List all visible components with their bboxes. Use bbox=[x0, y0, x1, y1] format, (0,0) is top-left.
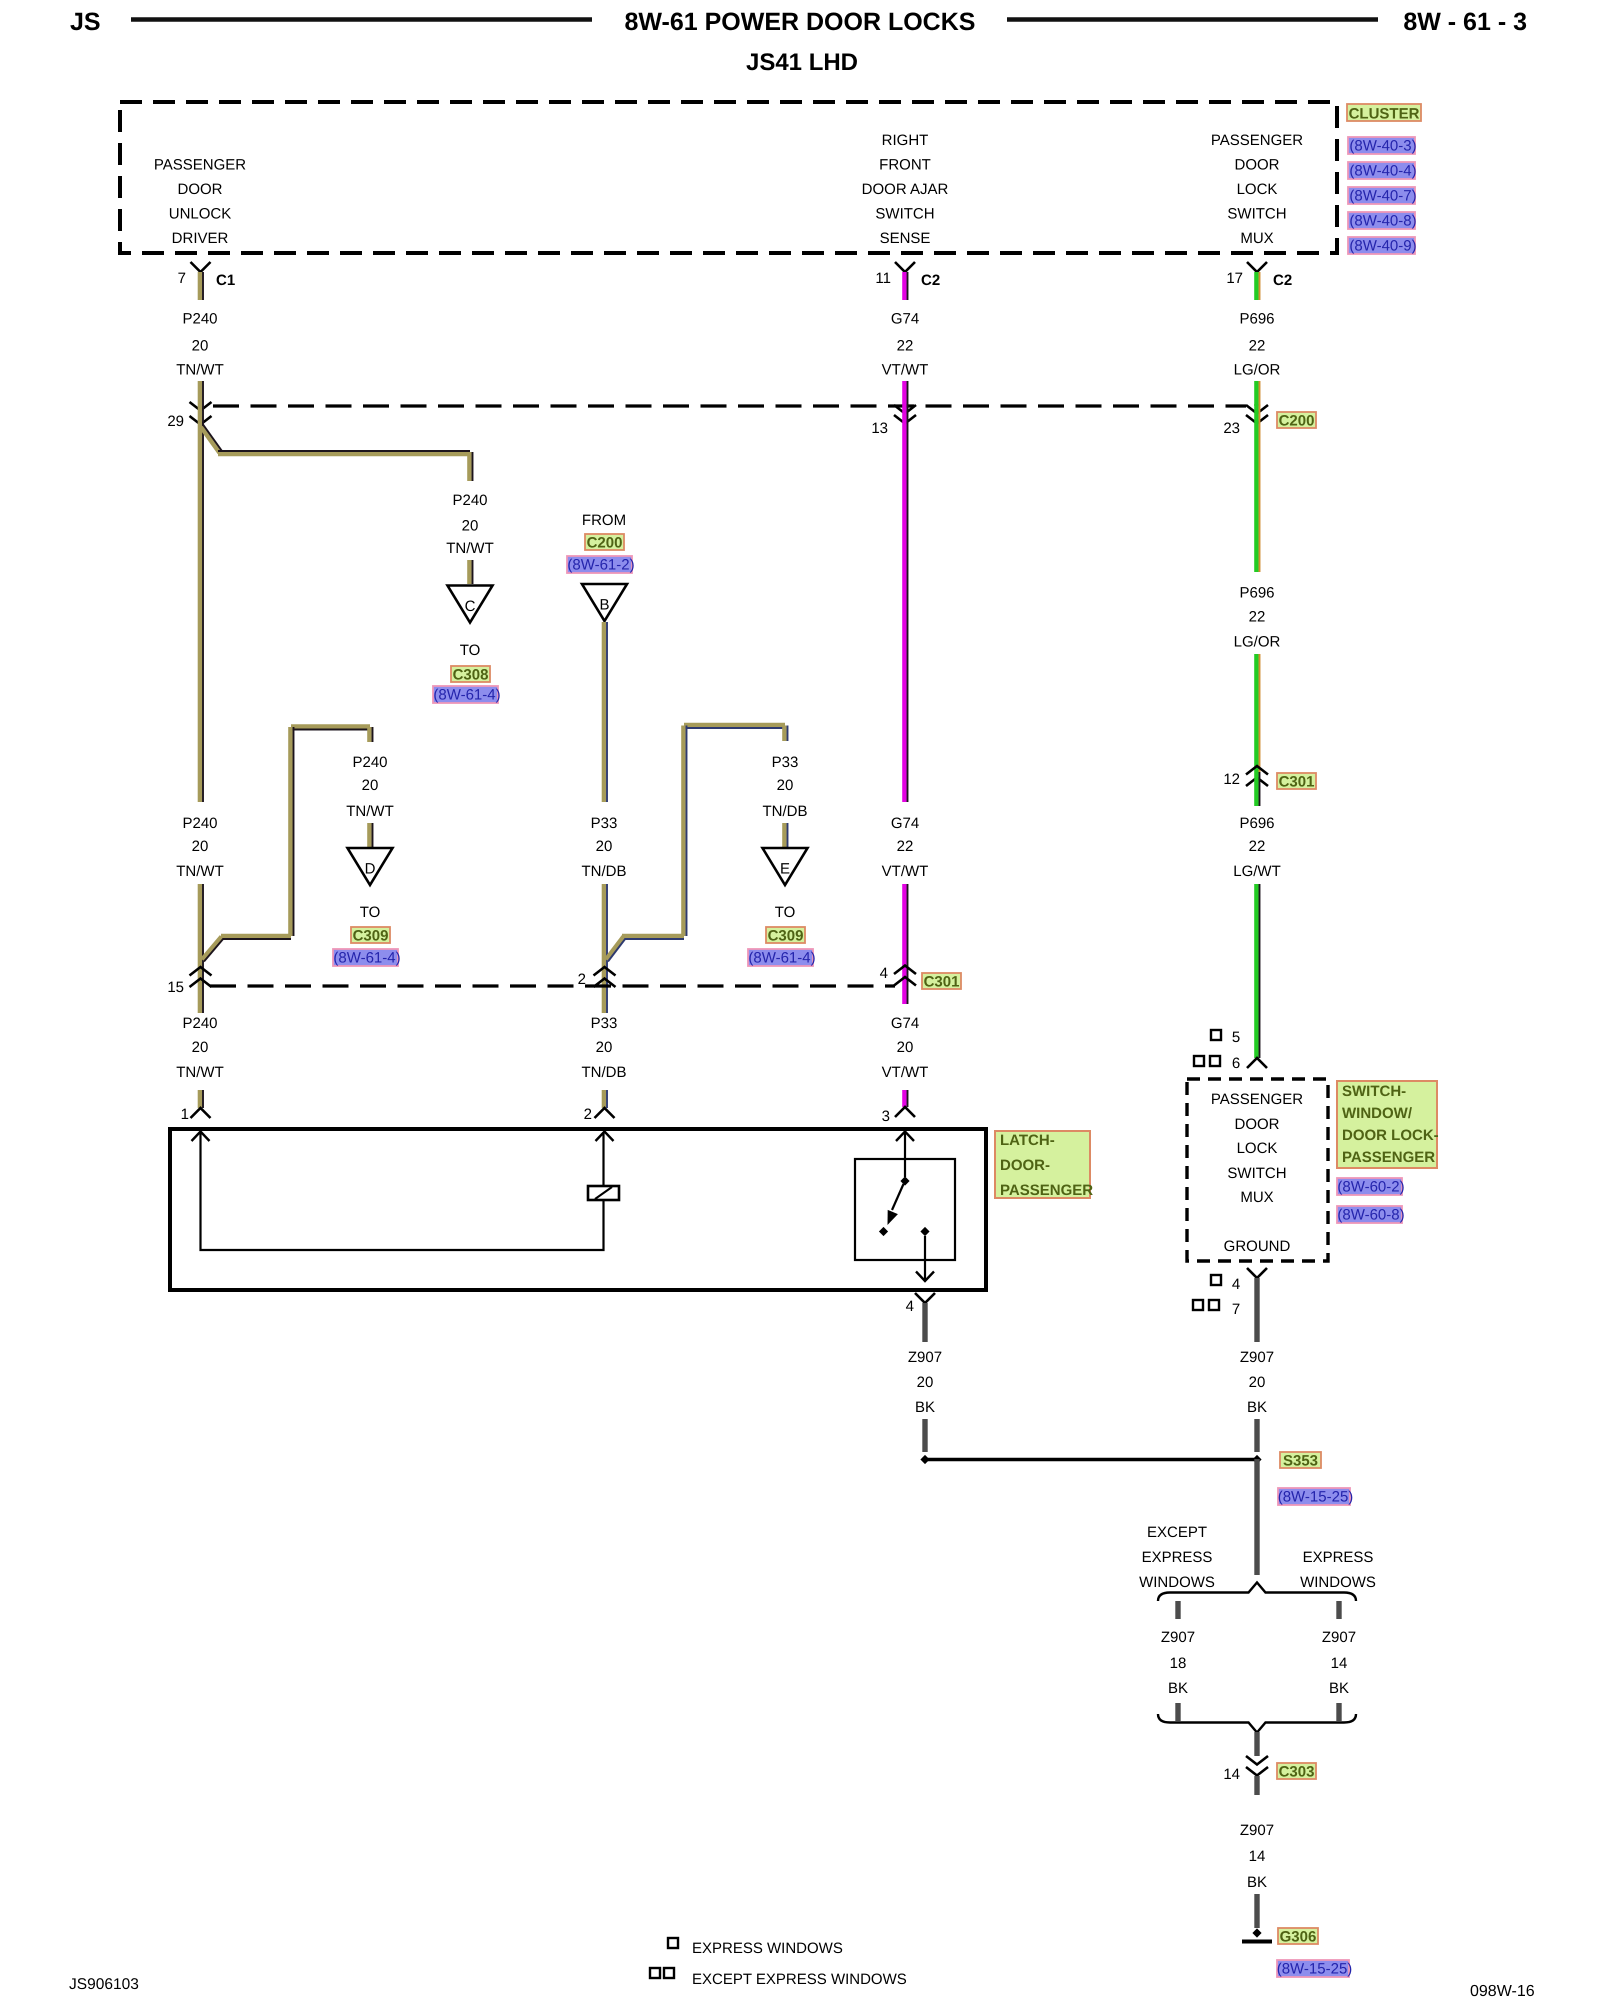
svg-text:JS906103: JS906103 bbox=[69, 1976, 139, 1993]
svg-text:JS41 LHD: JS41 LHD bbox=[746, 49, 858, 76]
wire G74 stub below C2 bbox=[904, 272, 907, 300]
svg-text:2: 2 bbox=[578, 971, 586, 988]
wire P696 below C301 bbox=[1256, 772, 1259, 806]
svg-text:14: 14 bbox=[1331, 1655, 1348, 1672]
wire P33 branch horizontal top bbox=[684, 725, 785, 728]
off-page connector triangle B bbox=[582, 584, 627, 621]
svg-text:JS: JS bbox=[70, 8, 101, 36]
wire label P33 20 TN/DB (bottom) bbox=[582, 1015, 627, 1081]
cluster pin function PASSENGER DOOR UNLOCK DRIVER bbox=[154, 157, 246, 248]
svg-text:BK: BK bbox=[1168, 1680, 1188, 1697]
svg-text:SWITCH-: SWITCH- bbox=[1342, 1083, 1406, 1100]
wire P696 to switch bbox=[1256, 884, 1259, 1058]
svg-text:(8W-61-4): (8W-61-4) bbox=[333, 950, 400, 967]
svg-text:17: 17 bbox=[1226, 270, 1243, 287]
wire P33 stub above triangle E bbox=[784, 823, 787, 847]
svg-text:(8W-40-4): (8W-40-4) bbox=[1349, 163, 1416, 180]
svg-text:G306: G306 bbox=[1280, 1929, 1317, 1946]
text TO (C309 left) bbox=[360, 904, 381, 921]
svg-text:TO: TO bbox=[460, 642, 481, 659]
svg-text:B: B bbox=[599, 597, 609, 614]
wire P33 branch horizontal bottom bbox=[622, 936, 684, 939]
label C301 (pin 12) bbox=[1277, 773, 1316, 791]
connector C1 pin 7 fork bbox=[178, 262, 211, 287]
svg-text:20: 20 bbox=[897, 1039, 914, 1056]
svg-text:P240: P240 bbox=[182, 815, 217, 832]
svg-text:CLUSTER: CLUSTER bbox=[1349, 106, 1420, 123]
latch pin 4 fork bbox=[906, 1293, 935, 1315]
latch pin 1 fork bbox=[181, 1106, 211, 1123]
svg-text:PASSENGER: PASSENGER bbox=[1211, 1091, 1303, 1108]
svg-text:S353: S353 bbox=[1283, 1453, 1318, 1470]
wire label P240 20 TN/WT (mid) bbox=[176, 815, 223, 880]
svg-text:FROM: FROM bbox=[582, 512, 626, 529]
module SWITCH-WINDOW/DOOR LOCK-PASSENGER box bbox=[1187, 1079, 1328, 1261]
svg-text:DOOR: DOOR bbox=[178, 181, 223, 198]
text TO (C308) bbox=[460, 642, 481, 659]
svg-text:5: 5 bbox=[1232, 1029, 1240, 1046]
wire P240 branch corner down bbox=[469, 452, 472, 481]
wire P240 main vertical bbox=[200, 406, 203, 802]
svg-text:EXCEPT: EXCEPT bbox=[1147, 1524, 1207, 1541]
svg-text:22: 22 bbox=[897, 838, 914, 855]
svg-text:DRIVER: DRIVER bbox=[172, 230, 229, 247]
svg-text:DOOR-: DOOR- bbox=[1000, 1157, 1050, 1174]
svg-text:LOCK: LOCK bbox=[1237, 1140, 1278, 1157]
wire label P240 20 TN/WT (branch to C308) bbox=[446, 492, 493, 557]
latch pin 3 fork bbox=[882, 1107, 915, 1125]
svg-text:TO: TO bbox=[360, 904, 381, 921]
reference (8W-15-25) at S353 bbox=[1278, 1488, 1354, 1506]
svg-text:C: C bbox=[465, 598, 476, 615]
label G306 bbox=[1278, 1928, 1318, 1946]
svg-text:EXPRESS: EXPRESS bbox=[1303, 1549, 1374, 1566]
label C303 bbox=[1277, 1763, 1316, 1781]
label C2 (door ajar) bbox=[921, 272, 940, 289]
wire label P696 22 LG/WT bbox=[1233, 815, 1281, 880]
svg-text:4: 4 bbox=[880, 965, 888, 982]
svg-text:(8W-40-7): (8W-40-7) bbox=[1349, 188, 1416, 205]
svg-text:LG/WT: LG/WT bbox=[1233, 863, 1281, 880]
svg-text:(8W-60-2): (8W-60-2) bbox=[1337, 1179, 1404, 1196]
svg-text:29: 29 bbox=[167, 413, 184, 430]
svg-text:20: 20 bbox=[1249, 1374, 1266, 1391]
splice S353 junction line bbox=[920, 1455, 1261, 1464]
svg-text:EXCEPT EXPRESS WINDOWS: EXCEPT EXPRESS WINDOWS bbox=[692, 1971, 907, 1988]
wire P696 mid vertical bbox=[1256, 654, 1259, 772]
svg-text:PASSENGER: PASSENGER bbox=[1211, 132, 1303, 149]
wire label G74 22 VT/WT (mid) bbox=[882, 815, 929, 880]
label C301 (pin 4) bbox=[922, 973, 961, 991]
wire P240 above C200 bbox=[200, 381, 203, 406]
svg-text:18: 18 bbox=[1170, 1655, 1187, 1672]
connector C2 pin 17 fork bbox=[1226, 262, 1267, 287]
svg-text:7: 7 bbox=[178, 270, 186, 287]
svg-text:TN/WT: TN/WT bbox=[446, 540, 493, 557]
svg-text:14: 14 bbox=[1223, 1766, 1240, 1783]
wire P33 branch vertical bbox=[683, 726, 686, 937]
svg-text:(8W-60-8): (8W-60-8) bbox=[1337, 1207, 1404, 1224]
option marker squares pin 6 bbox=[1194, 1055, 1240, 1072]
wire Z907 to ground bbox=[1254, 1894, 1259, 1928]
svg-text:GROUND: GROUND bbox=[1224, 1238, 1291, 1255]
label SWITCH-WINDOW/DOOR LOCK-PASSENGER bbox=[1337, 1081, 1439, 1168]
svg-text:C2: C2 bbox=[921, 272, 940, 289]
connector C200 pin 23 chevrons bbox=[1223, 405, 1268, 437]
svg-text:DOOR: DOOR bbox=[1235, 1116, 1280, 1133]
connector C2 pin 11 fork bbox=[875, 262, 915, 287]
wire label P696 22 LG/OR (top) bbox=[1234, 311, 1281, 379]
svg-text:C2: C2 bbox=[1273, 272, 1292, 289]
page number 8W - 61 - 3 bbox=[1403, 8, 1527, 36]
svg-text:1: 1 bbox=[181, 1106, 189, 1123]
header rule right bbox=[1007, 17, 1378, 22]
svg-text:20: 20 bbox=[192, 838, 209, 855]
latch switch wire pin3 bbox=[904, 1132, 906, 1177]
latch pin 2 fork bbox=[584, 1106, 615, 1123]
svg-text:MUX: MUX bbox=[1240, 230, 1273, 247]
svg-text:11: 11 bbox=[875, 270, 891, 287]
svg-text:VT/WT: VT/WT bbox=[882, 863, 929, 880]
switch box text bbox=[1211, 1091, 1303, 1255]
latch switch pole to pin 4 bbox=[916, 1227, 934, 1281]
svg-text:6: 6 bbox=[1232, 1055, 1240, 1072]
svg-text:13: 13 bbox=[871, 420, 888, 437]
svg-text:TN/WT: TN/WT bbox=[176, 1064, 223, 1081]
option marker square pin 4 bbox=[1211, 1275, 1240, 1293]
text TO (C309 right) bbox=[775, 904, 796, 921]
wire P33 lower vertical bbox=[604, 884, 607, 1013]
svg-text:G74: G74 bbox=[891, 815, 919, 832]
svg-text:20: 20 bbox=[192, 338, 209, 355]
connector C301 pin 2 chevrons bbox=[578, 967, 616, 988]
svg-text:SENSE: SENSE bbox=[880, 230, 931, 247]
wire Z907 left lower bbox=[922, 1419, 927, 1452]
legend squares EXCEPT EXPRESS WINDOWS bbox=[650, 1968, 907, 1988]
svg-text:LATCH-: LATCH- bbox=[1000, 1132, 1055, 1149]
connector C200 dashed line bbox=[213, 404, 1246, 407]
latch internal wire pin1-coil bbox=[201, 1132, 604, 1250]
svg-text:C301: C301 bbox=[924, 974, 960, 991]
svg-text:G74: G74 bbox=[891, 311, 919, 328]
header rule left bbox=[131, 17, 592, 22]
svg-text:15: 15 bbox=[167, 979, 184, 996]
svg-text:Z907: Z907 bbox=[1161, 1629, 1195, 1646]
svg-text:20: 20 bbox=[596, 1039, 613, 1056]
svg-text:RIGHT: RIGHT bbox=[882, 132, 929, 149]
svg-text:23: 23 bbox=[1223, 420, 1240, 437]
wire label Z907 20 BK (left) bbox=[908, 1349, 942, 1416]
latch internal arrow pin 1 bbox=[192, 1132, 210, 1142]
svg-text:P240: P240 bbox=[452, 492, 487, 509]
svg-text:Z907: Z907 bbox=[1240, 1822, 1274, 1839]
wire P240 branch diagonal bbox=[201, 425, 222, 453]
wire Z907 14 BK stub upper bbox=[1336, 1601, 1341, 1619]
svg-text:C301: C301 bbox=[1279, 774, 1315, 791]
wire label Z907 14 BK (bottom) bbox=[1240, 1822, 1274, 1891]
svg-text:TN/WT: TN/WT bbox=[346, 803, 393, 820]
reference (8W-40-4) bbox=[1348, 162, 1417, 180]
reference (8W-61-4) under C308 bbox=[433, 686, 501, 704]
svg-text:4: 4 bbox=[1232, 1276, 1240, 1293]
latch internal arrow pin 2 bbox=[596, 1132, 614, 1142]
svg-text:LG/OR: LG/OR bbox=[1234, 362, 1281, 379]
wire P240 stub above triangle D bbox=[369, 823, 372, 847]
wire Z907 below S353 bbox=[1254, 1459, 1259, 1575]
footer sheet code 098W-16 bbox=[1470, 1983, 1535, 2000]
svg-text:BK: BK bbox=[915, 1399, 935, 1416]
option marker square pin 5 bbox=[1211, 1029, 1240, 1046]
text EXCEPT EXPRESS WINDOWS bbox=[1139, 1524, 1215, 1591]
svg-text:Z907: Z907 bbox=[1322, 1629, 1356, 1646]
svg-text:20: 20 bbox=[362, 777, 379, 794]
wire P240 branch2 diagonal join bbox=[202, 937, 224, 962]
connector C301 dashed line bbox=[210, 984, 895, 987]
wire label P240 20 TN/WT (branch to C309) bbox=[346, 754, 393, 820]
svg-text:P240: P240 bbox=[182, 1015, 217, 1032]
svg-text:14: 14 bbox=[1249, 1848, 1266, 1865]
svg-text:VT/WT: VT/WT bbox=[882, 1064, 929, 1081]
label C309 (left) bbox=[351, 927, 390, 945]
text FROM bbox=[582, 512, 626, 529]
svg-text:P33: P33 bbox=[591, 815, 618, 832]
svg-text:098W-16: 098W-16 bbox=[1470, 1983, 1535, 2000]
wire G74 lower vertical bbox=[904, 884, 907, 1004]
svg-text:FRONT: FRONT bbox=[879, 157, 931, 174]
option marker squares pin 7 bbox=[1193, 1300, 1240, 1318]
legend square EXPRESS WINDOWS bbox=[668, 1938, 843, 1957]
wire label Z907 20 BK (right) bbox=[1240, 1349, 1274, 1416]
label LATCH-DOOR-PASSENGER bbox=[995, 1131, 1093, 1199]
module CLUSTER dashed box bbox=[120, 102, 1337, 253]
svg-text:EXPRESS: EXPRESS bbox=[1142, 1549, 1213, 1566]
harness merge brace bbox=[1158, 1714, 1356, 1733]
wire label P33 20 TN/DB (branch to C309) bbox=[763, 754, 808, 820]
svg-text:VT/WT: VT/WT bbox=[882, 362, 929, 379]
svg-text:20: 20 bbox=[192, 1039, 209, 1056]
wire Z907 14 BK stub lower bbox=[1336, 1703, 1341, 1721]
reference (8W-40-7) bbox=[1348, 187, 1417, 205]
wire P240 lower vertical bbox=[200, 884, 203, 1013]
svg-text:C200: C200 bbox=[587, 535, 623, 552]
svg-text:WINDOW/: WINDOW/ bbox=[1342, 1105, 1413, 1122]
page title JS bbox=[70, 8, 101, 36]
svg-text:Z907: Z907 bbox=[1240, 1349, 1274, 1366]
svg-text:BK: BK bbox=[1247, 1399, 1267, 1416]
svg-text:TO: TO bbox=[775, 904, 796, 921]
svg-text:G74: G74 bbox=[891, 1015, 919, 1032]
label S353 bbox=[1280, 1452, 1321, 1470]
svg-text:SWITCH: SWITCH bbox=[1227, 1165, 1286, 1182]
svg-text:(8W-40-8): (8W-40-8) bbox=[1349, 213, 1416, 230]
wire Z907 from latch pin 4 bbox=[922, 1303, 927, 1342]
svg-text:22: 22 bbox=[897, 338, 914, 355]
connector C303 pin 14 chevrons bbox=[1223, 1756, 1268, 1783]
text EXPRESS WINDOWS bbox=[1300, 1549, 1376, 1591]
connector C301 pin 15 chevrons bbox=[167, 967, 211, 996]
svg-text:22: 22 bbox=[1249, 838, 1266, 855]
wire Z907 right lower bbox=[1254, 1419, 1259, 1452]
footer sheet code JS906103 bbox=[69, 1976, 139, 1993]
wire P240 branch horizontal bbox=[218, 451, 470, 454]
svg-text:4: 4 bbox=[906, 1298, 914, 1315]
label C2 (lock switch) bbox=[1273, 272, 1292, 289]
wire P240 branch2 vertical bbox=[290, 727, 293, 936]
wire P240 branch2 stub down bbox=[369, 727, 372, 742]
svg-text:20: 20 bbox=[462, 518, 479, 535]
label C200 bbox=[1277, 412, 1316, 430]
wire P33 branch diagonal join bbox=[606, 937, 626, 962]
reference (8W-61-4) under C309 left bbox=[333, 949, 401, 967]
svg-text:3: 3 bbox=[882, 1108, 890, 1125]
wire Z907 below C303 bbox=[1254, 1776, 1259, 1795]
wire G74 above C200 bbox=[904, 381, 907, 406]
wire P696 above C200 bbox=[1256, 381, 1259, 406]
cluster pin function PASSENGER DOOR LOCK SWITCH MUX bbox=[1211, 132, 1303, 247]
label C200 (from) bbox=[585, 534, 624, 552]
wire label P240 20 TN/WT (bottom) bbox=[176, 1015, 223, 1081]
svg-text:P696: P696 bbox=[1239, 585, 1274, 602]
label C309 (right) bbox=[766, 927, 805, 945]
svg-text:(8W-15-25): (8W-15-25) bbox=[1278, 1489, 1354, 1506]
svg-text:E: E bbox=[780, 861, 790, 878]
svg-text:DOOR AJAR: DOOR AJAR bbox=[862, 181, 949, 198]
wire label P240 20 TN/WT (top) bbox=[176, 311, 223, 379]
wire label Z907 18 BK bbox=[1161, 1629, 1195, 1697]
svg-text:P33: P33 bbox=[591, 1015, 618, 1032]
connector C301 pin 4 chevrons bbox=[880, 965, 916, 986]
svg-text:TN/WT: TN/WT bbox=[176, 362, 223, 379]
svg-text:PASSENGER: PASSENGER bbox=[154, 157, 246, 174]
svg-text:P240: P240 bbox=[182, 311, 217, 328]
svg-text:LOCK: LOCK bbox=[1237, 181, 1278, 198]
svg-text:(8W-61-4): (8W-61-4) bbox=[748, 950, 815, 967]
wire P33 branch stub down bbox=[784, 726, 787, 742]
svg-text:MUX: MUX bbox=[1240, 1189, 1273, 1206]
latch ajar switch contact bbox=[879, 1176, 910, 1236]
wire P240 branch2 horizontal bottom bbox=[221, 936, 291, 939]
reference (8W-40-8) bbox=[1348, 212, 1417, 230]
reference (8W-40-3) bbox=[1348, 137, 1417, 155]
svg-text:22: 22 bbox=[1249, 338, 1266, 355]
wire G74 to latch pin 3 bbox=[904, 1090, 907, 1107]
svg-text:SWITCH: SWITCH bbox=[875, 206, 934, 223]
switch ground fork bbox=[1247, 1268, 1267, 1278]
svg-text:C308: C308 bbox=[453, 667, 489, 684]
label CLUSTER bbox=[1347, 104, 1421, 123]
svg-text:20: 20 bbox=[777, 777, 794, 794]
svg-text:P696: P696 bbox=[1239, 311, 1274, 328]
latch internal arrow pin 3 bbox=[896, 1132, 914, 1142]
reference (8W-40-9) bbox=[1348, 237, 1417, 255]
svg-text:BK: BK bbox=[1329, 1680, 1349, 1697]
svg-text:20: 20 bbox=[596, 838, 613, 855]
connector C200 pin 29 chevrons bbox=[167, 402, 211, 430]
latch switch inner box bbox=[855, 1159, 955, 1260]
wire P696 upper vertical bbox=[1256, 404, 1259, 572]
wire label P33 20 TN/DB (mid) bbox=[582, 815, 627, 880]
svg-text:2: 2 bbox=[584, 1106, 592, 1123]
wire P33 to latch pin 2 bbox=[604, 1090, 607, 1108]
svg-text:7: 7 bbox=[1232, 1301, 1240, 1318]
svg-text:Z907: Z907 bbox=[908, 1349, 942, 1366]
harness split brace bbox=[1158, 1583, 1356, 1602]
label C308 bbox=[451, 666, 490, 684]
subtitle JS41 LHD bbox=[746, 49, 858, 76]
svg-text:BK: BK bbox=[1247, 1874, 1267, 1891]
wire label G74 20 VT/WT (bottom) bbox=[882, 1015, 929, 1081]
ground G306 symbol bbox=[1242, 1928, 1272, 1941]
wire Z907 from switch ground bbox=[1254, 1278, 1259, 1342]
reference (8W-60-2) bbox=[1337, 1178, 1405, 1196]
reference (8W-15-25) at G306 bbox=[1277, 1960, 1353, 1978]
svg-text:20: 20 bbox=[917, 1374, 934, 1391]
wire P240 stub above triangle C bbox=[469, 560, 472, 584]
module LATCH-DOOR-PASSENGER box bbox=[170, 1129, 986, 1290]
connector C301 pin 12 chevrons bbox=[1223, 766, 1268, 788]
wire Z907 18 BK stub upper bbox=[1175, 1601, 1180, 1619]
svg-text:C200: C200 bbox=[1279, 413, 1315, 430]
svg-text:P240: P240 bbox=[352, 754, 387, 771]
svg-text:D: D bbox=[365, 861, 376, 878]
reference (8W-60-8) bbox=[1337, 1206, 1405, 1224]
svg-text:TN/WT: TN/WT bbox=[176, 863, 223, 880]
svg-text:TN/DB: TN/DB bbox=[582, 863, 627, 880]
svg-text:12: 12 bbox=[1223, 771, 1240, 788]
svg-text:PASSENGER: PASSENGER bbox=[1000, 1182, 1093, 1199]
svg-text:C309: C309 bbox=[353, 928, 389, 945]
wire Z907 above C303 bbox=[1254, 1732, 1259, 1756]
svg-text:LG/OR: LG/OR bbox=[1234, 634, 1281, 651]
connector C200 pin 13 chevrons bbox=[871, 405, 916, 437]
svg-text:8W-61 POWER DOOR LOCKS: 8W-61 POWER DOOR LOCKS bbox=[625, 8, 976, 36]
svg-text:C309: C309 bbox=[768, 928, 804, 945]
svg-text:C1: C1 bbox=[216, 272, 235, 289]
wire P240 stub below C1 bbox=[200, 272, 203, 300]
label C1 bbox=[216, 272, 235, 289]
svg-text:(8W-40-3): (8W-40-3) bbox=[1349, 138, 1416, 155]
svg-text:22: 22 bbox=[1249, 609, 1266, 626]
switch pin 5/6 fork bbox=[1247, 1058, 1267, 1068]
svg-text:UNLOCK: UNLOCK bbox=[169, 206, 232, 223]
page title 8W-61 POWER DOOR LOCKS bbox=[625, 8, 976, 36]
off-page connector triangle D bbox=[348, 848, 393, 885]
svg-text:TN/DB: TN/DB bbox=[582, 1064, 627, 1081]
wire G74 long vertical bbox=[904, 404, 907, 802]
cluster pin function RIGHT FRONT DOOR AJAR SWITCH SENSE bbox=[862, 132, 949, 247]
off-page connector triangle C bbox=[448, 586, 493, 623]
wire label Z907 14 BK bbox=[1322, 1629, 1356, 1697]
svg-text:(8W-40-9): (8W-40-9) bbox=[1349, 238, 1416, 255]
svg-text:(8W-61-2): (8W-61-2) bbox=[567, 557, 634, 574]
svg-text:P33: P33 bbox=[772, 754, 799, 771]
svg-text:P696: P696 bbox=[1239, 815, 1274, 832]
svg-text:EXPRESS WINDOWS: EXPRESS WINDOWS bbox=[692, 1940, 843, 1957]
svg-text:(8W-61-4): (8W-61-4) bbox=[433, 687, 500, 704]
svg-text:SWITCH: SWITCH bbox=[1227, 206, 1286, 223]
wire P33 main vertical bbox=[604, 622, 607, 802]
svg-text:DOOR LOCK-: DOOR LOCK- bbox=[1342, 1127, 1439, 1144]
svg-text:DOOR: DOOR bbox=[1235, 157, 1280, 174]
svg-text:8W - 61 - 3: 8W - 61 - 3 bbox=[1403, 8, 1527, 36]
wire P696 stub below C2 bbox=[1256, 272, 1259, 300]
svg-text:WINDOWS: WINDOWS bbox=[1139, 1574, 1215, 1591]
wire P240 to latch pin 1 bbox=[200, 1090, 203, 1108]
reference (8W-61-2) bbox=[567, 556, 635, 574]
off-page connector triangle E bbox=[763, 848, 808, 885]
svg-text:TN/DB: TN/DB bbox=[763, 803, 808, 820]
svg-text:PASSENGER: PASSENGER bbox=[1342, 1149, 1435, 1166]
